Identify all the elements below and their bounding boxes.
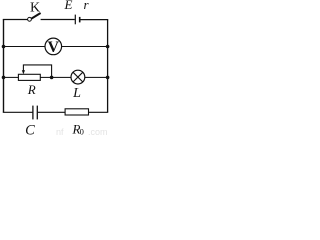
node junction left lamp row bbox=[2, 76, 6, 80]
svg-text:C: C bbox=[25, 122, 35, 136]
wire top middle segment bbox=[41, 19, 75, 21]
node junction rheostat tap bbox=[50, 76, 54, 80]
svg-text:V: V bbox=[48, 39, 60, 56]
wire top right segment bbox=[80, 19, 108, 21]
rheostat slider arrowhead bbox=[22, 70, 25, 74]
wire top left segment bbox=[3, 19, 28, 21]
battery E r bbox=[75, 15, 79, 25]
capacitor C bbox=[33, 106, 37, 120]
label R bbox=[27, 82, 36, 97]
svg-text:E: E bbox=[64, 0, 73, 12]
rheostat slider wire bbox=[23, 65, 51, 78]
svg-text:nf: nf bbox=[56, 127, 64, 136]
node junction left voltmeter row bbox=[2, 45, 6, 49]
watermark bbox=[56, 127, 108, 137]
node junction right voltmeter row bbox=[106, 45, 110, 49]
svg-text:0: 0 bbox=[80, 127, 84, 136]
label C bbox=[25, 122, 35, 138]
wire voltmeter row bbox=[4, 46, 108, 48]
wire lamp row bbox=[4, 76, 108, 78]
lamp L bbox=[71, 70, 85, 84]
wire right vertical bus bbox=[107, 20, 109, 113]
wire bottom right segment bbox=[89, 111, 109, 113]
switch K bbox=[28, 13, 41, 21]
label E bbox=[64, 0, 73, 12]
wire bottom middle segment bbox=[38, 111, 65, 113]
resistor R0 body bbox=[65, 109, 88, 115]
svg-text:R: R bbox=[27, 82, 36, 97]
svg-text:L: L bbox=[72, 86, 81, 101]
label R0 bbox=[72, 121, 84, 136]
wire left vertical bus bbox=[3, 20, 5, 113]
voltmeter V bbox=[45, 38, 62, 56]
svg-text:.com: .com bbox=[88, 127, 108, 136]
rheostat R body bbox=[18, 74, 40, 80]
label L bbox=[72, 86, 81, 101]
svg-text:K: K bbox=[30, 1, 40, 16]
wire bottom left segment bbox=[3, 111, 33, 113]
node junction right lamp row bbox=[106, 76, 110, 80]
svg-text:r: r bbox=[83, 0, 89, 12]
label r bbox=[83, 0, 89, 12]
label K bbox=[30, 1, 40, 16]
